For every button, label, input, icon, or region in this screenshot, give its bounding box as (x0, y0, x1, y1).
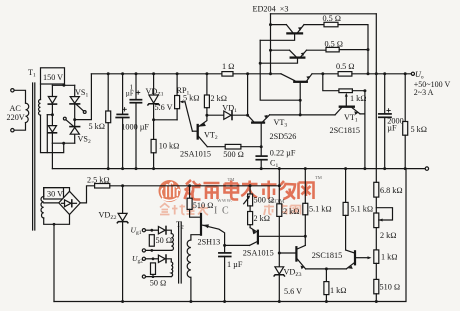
wire sense feed vertical (375, 14, 377, 169)
node 2k on rail (205, 72, 208, 75)
node mid rail bottom return (404, 167, 407, 170)
watermark small row glyphs (160, 204, 208, 216)
svg-text:30 V: 30 V (47, 190, 63, 199)
node VT3 base (260, 145, 263, 148)
node diff base left (278, 252, 281, 255)
capacitor 1000uF (116, 74, 129, 169)
node gate rail 510 (188, 184, 191, 187)
terminal Ug1 top (142, 229, 145, 232)
wire bridge positive to top rail (75, 74, 92, 120)
svg-text:5 kΩ: 5 kΩ (183, 93, 200, 102)
node sense vertical on rail (375, 72, 378, 75)
node bridge minus (53, 223, 56, 226)
resistor 5k left (106, 74, 111, 169)
svg-text:C1: C1 (270, 159, 278, 170)
svg-text:1000 µF: 1000 µF (121, 122, 149, 131)
wire top link (271, 13, 377, 15)
node 5k left on rail (107, 72, 110, 75)
svg-text:0.5 Ω: 0.5 Ω (323, 14, 342, 23)
wire bottom rail (54, 169, 406, 302)
resistor 5.1k first (303, 169, 308, 246)
wire Q3 base to drive node (299, 82, 301, 115)
svg-text:1 kΩ: 1 kΩ (381, 252, 398, 261)
150V label box (41, 68, 65, 84)
svg-text:1 µF: 1 µF (227, 260, 243, 269)
svg-text:2.5 kΩ: 2.5 kΩ (87, 175, 110, 184)
thyristor VS1 (70, 97, 86, 114)
capacitor C1 0.22uF (256, 156, 267, 169)
svg-text:VD1: VD1 (222, 103, 237, 114)
potentiometer 2k divider (374, 208, 393, 228)
wire bridge right branch (74, 85, 76, 143)
transistor ED204 Q1 (260, 25, 304, 41)
divider chain resistor 6.8k (374, 182, 379, 197)
thyristor VS2 (63, 117, 79, 134)
terminal Ug2 top (142, 257, 145, 260)
transistor 2SC1815 right (346, 250, 372, 269)
node mid rail 5k left (107, 167, 110, 170)
resistor 510 ohm divider (374, 279, 379, 301)
svg-text:0.22 µF: 0.22 µF (270, 149, 296, 158)
wire (14, 90, 25, 103)
transistor VT2 (192, 115, 207, 147)
svg-text:VT2: VT2 (204, 130, 218, 141)
resistor 2k zener chain (277, 204, 282, 217)
svg-text:5.1 kΩ: 5.1 kΩ (309, 204, 332, 213)
wire gate supply rail (110, 185, 279, 187)
resistor 0.5 ohm Q2 (326, 47, 339, 52)
resistor 5.1k second (343, 169, 348, 250)
watermark small row glyphs right (264, 204, 301, 215)
output terminal Uo (411, 72, 414, 75)
node bottom rail VDZ2 (121, 300, 124, 303)
resistor 50 ohm lower (151, 263, 156, 275)
node 1000uF on rail (121, 72, 124, 75)
AC input terminal top (11, 89, 14, 92)
svg-text:µF: µF (126, 89, 134, 97)
wire top rail left segment (91, 73, 222, 75)
rheostat 500 ohm (244, 186, 253, 212)
svg-text:µF: µF (387, 123, 397, 132)
svg-text:10 kΩ: 10 kΩ (159, 141, 180, 150)
node gate rail 500 (249, 184, 252, 187)
capacitor 2000uF (379, 74, 391, 169)
svg-text:1 Ω: 1 Ω (222, 62, 234, 71)
wire bridge minus to bottom rail (53, 224, 55, 301)
terminal Ug2 bottom (142, 275, 145, 278)
svg-text:VDZ3: VDZ3 (284, 268, 302, 279)
transistor 2SC1815 left (296, 245, 305, 269)
wire 500 to VT3 base (241, 146, 261, 148)
svg-text:TM: TM (315, 175, 322, 180)
svg-text:5 kΩ: 5 kΩ (411, 125, 428, 134)
svg-text:5.6 V: 5.6 V (155, 103, 173, 112)
potentiometer RP1 (175, 74, 193, 131)
zener diode VDZ1 (148, 74, 159, 140)
svg-text:5.1 kΩ: 5.1 kΩ (351, 204, 374, 213)
wire bridge bottom (52, 142, 74, 144)
node ED204 base drive (299, 113, 302, 116)
diode Ug1 (158, 226, 166, 234)
node bridge bottom junction (62, 142, 65, 145)
wire (14, 123, 25, 131)
wire Ug2 top (146, 258, 159, 260)
svg-text:50 Ω: 50 Ω (156, 236, 173, 245)
resistor 2k upper (204, 74, 209, 115)
node mid rail VT1 emitter (363, 167, 366, 170)
transformer T1 30V winding (41, 197, 44, 218)
node Ug2 bottom (152, 275, 155, 278)
resistor 500 ohm (225, 144, 241, 149)
transistor ED204 Q3 (281, 74, 312, 82)
svg-text:2SH13: 2SH13 (198, 237, 221, 246)
wire UJT emitter to 2SA collector (225, 244, 250, 246)
capacitor 1uF timing (219, 245, 231, 301)
svg-text:2 kΩ: 2 kΩ (380, 231, 397, 240)
node 5k right on rail (404, 72, 407, 75)
svg-text:2SA1015: 2SA1015 (180, 149, 211, 158)
node mid rail 5.1k first (304, 167, 307, 170)
T2 primary winding (187, 235, 201, 302)
zener chain vertical (278, 169, 280, 302)
wire divider chain (375, 169, 377, 280)
wire rail to VT3 collector (247, 74, 249, 115)
svg-text:0.5 Ω: 0.5 Ω (325, 40, 344, 49)
wire Q2 0.5ohm to emitter bus (339, 49, 368, 51)
node mid rail 5.1k second (344, 167, 347, 170)
zener diode VDZ2 (117, 186, 128, 302)
svg-text:VS2: VS2 (78, 135, 91, 146)
svg-text:2 kΩ: 2 kΩ (211, 94, 228, 103)
svg-text:2 kΩ: 2 kΩ (254, 214, 271, 223)
resistor 0.5 ohm Q1 (324, 22, 338, 27)
zener diode VDZ3 (274, 267, 284, 276)
wire secondary bottom path to bridge bottom (41, 115, 64, 153)
bridge internal diode (62, 200, 77, 207)
svg-text:1 kΩ: 1 kΩ (350, 94, 367, 103)
transistor 2SH13 (201, 214, 225, 246)
node 1uF on rail (135, 72, 138, 75)
node Q2 collector takeoff (269, 49, 272, 52)
wire VDZ1 to RP1 bottom (154, 119, 178, 121)
node Ug1 bottom (150, 249, 153, 252)
node bottom rail T2 (189, 300, 192, 303)
capacitor 1uF (130, 74, 141, 169)
transistor VT1 (335, 107, 360, 115)
wire Q1 0.5ohm to emitter bus (338, 25, 368, 74)
watermark big row glyphs (185, 180, 314, 200)
diode VD secondary top-left (48, 97, 56, 105)
svg-text:50 Ω: 50 Ω (150, 279, 167, 288)
wire tap drop (46, 115, 48, 153)
node bottom rail VDZ3 (278, 300, 281, 303)
svg-text:VT3: VT3 (274, 118, 288, 129)
svg-text:TM: TM (228, 177, 235, 182)
transistor 2SA1015 lower (250, 228, 306, 246)
potentiometer 1k divider (374, 250, 379, 264)
resistor 10k (151, 139, 156, 168)
node common emitter (325, 267, 328, 270)
terminal Ug1 bottom (142, 249, 145, 252)
transformer T1 core (32, 83, 34, 230)
svg-text:1 kΩ: 1 kΩ (330, 286, 347, 295)
node collector bus on rail (269, 72, 272, 75)
svg-text:510 Ω: 510 Ω (193, 201, 214, 210)
wire bridge left branch (51, 85, 53, 143)
svg-text:WWW.: WWW. (217, 199, 232, 204)
transformer T1 150V secondary winding (39, 100, 41, 116)
node gate rail VDZ2 (121, 184, 124, 187)
resistor 1k emitter (324, 269, 329, 302)
bridge rectifier diamond (59, 191, 81, 214)
svg-text:AC: AC (10, 104, 22, 113)
svg-text:2SC1815: 2SC1815 (330, 126, 360, 135)
node bottom rail 1uF (223, 300, 226, 303)
svg-text:5.6 V: 5.6 V (284, 287, 302, 296)
svg-text:5 kΩ: 5 kΩ (89, 122, 106, 131)
node VDZ1 bottom (152, 118, 155, 121)
wire 30V center tap (44, 202, 59, 204)
wire bridge negative down to mid rail (51, 143, 53, 168)
wire Ug1 top (146, 229, 159, 231)
node 2SA collector junction (304, 235, 307, 238)
node bottom rail 1k (325, 300, 328, 303)
T2 gate winding 2 (146, 259, 173, 277)
transistor VT3 (248, 115, 270, 147)
svg-text:510 Ω: 510 Ω (380, 282, 401, 291)
node VDZ1 on rail (152, 72, 155, 75)
node Ug2 top (152, 257, 155, 260)
node Q3 base (299, 99, 302, 102)
wire box to bridge top (63, 84, 65, 85)
T2 gate winding 1 (146, 230, 174, 250)
resistor 0.5 ohm Q3 (338, 72, 352, 77)
svg-text:2SC1815: 2SC1815 (312, 251, 342, 260)
svg-text:Uo: Uo (415, 70, 424, 81)
wire VT3 base to C1 (260, 147, 262, 156)
node RP1 on rail (176, 72, 179, 75)
node secondary tap (51, 113, 54, 116)
svg-text:VS1: VS1 (75, 88, 88, 99)
svg-text:C: C (222, 206, 229, 217)
node bridge right mid (73, 118, 76, 121)
node Ug1 top (150, 229, 153, 232)
wire ED204 collector bus (270, 14, 272, 74)
AC input terminal bottom (11, 129, 14, 132)
svg-text:VDZ1: VDZ1 (146, 87, 164, 98)
diode Ug2 (158, 255, 166, 263)
resistor 2k chain (248, 212, 253, 228)
wire VT1 emitter to mid rail (360, 114, 365, 169)
wire secondary top to 150V box (40, 84, 42, 100)
wire output rail Q3 to 0.5ohm (312, 73, 338, 75)
wire top rail to VT3 collector area (233, 73, 281, 75)
node Q2 base on bus (259, 62, 262, 65)
svg-text:0.5 Ω: 0.5 Ω (336, 62, 355, 71)
svg-text:2 kΩ: 2 kΩ (283, 207, 300, 216)
svg-text:500 Ω: 500 Ω (254, 195, 275, 204)
svg-text:Ug2: Ug2 (132, 254, 143, 265)
wire secondary tap to bridge left mid (47, 114, 52, 116)
node mid rail 2000uF (383, 167, 386, 170)
wire 30V winding bottom (44, 215, 70, 225)
svg-text:2SD526: 2SD526 (270, 132, 297, 141)
svg-text:Ug1: Ug1 (131, 225, 142, 236)
node VT3 collector (246, 114, 249, 117)
transformer T2 core (179, 222, 182, 283)
diode VD secondary bottom-left (48, 126, 56, 133)
svg-text:T1: T1 (28, 68, 36, 79)
svg-text:VDZ2: VDZ2 (99, 211, 117, 222)
transformer T1 primary winding (26, 103, 29, 122)
output minus terminal (425, 167, 428, 170)
svg-text:I: I (214, 206, 217, 217)
node 1k pot left on rail (321, 72, 324, 75)
node bridge top (62, 84, 65, 87)
potentiometer 1k VT1 (323, 74, 365, 114)
wire bridge top (52, 84, 74, 86)
node mid rail 10k (152, 167, 155, 170)
wire diff base left (279, 252, 295, 254)
wire Q2 emitter (307, 49, 327, 51)
node VD1 left (205, 114, 208, 117)
node VT3 feed on rail (246, 72, 249, 75)
node emitter bus on output rail (367, 72, 370, 75)
wire ED204 base bus (260, 40, 300, 100)
node emitter bus Q2 (367, 48, 370, 51)
resistor 5k right (403, 74, 408, 169)
node 2000uF on rail (383, 72, 386, 75)
svg-text:2~3 A: 2~3 A (414, 88, 434, 97)
transistor ED204 Q2 (260, 50, 306, 63)
node mid rail C1 (260, 167, 263, 170)
resistor 2.5k (95, 184, 110, 189)
node Q1 collector takeoff (269, 23, 272, 26)
node 1k pot right (363, 89, 366, 92)
svg-text:T2: T2 (176, 220, 184, 231)
wire VT2 emitter (207, 146, 225, 148)
node gate rail end (278, 184, 281, 187)
wire mid rail (52, 168, 425, 170)
wire 30V winding top (44, 188, 70, 197)
wire VT3 emitter line (270, 114, 335, 116)
node mid rail 1000uF (121, 167, 124, 170)
resistor 1 ohm (222, 72, 233, 77)
wire output rail right (352, 73, 411, 75)
svg-text:500 Ω: 500 Ω (223, 150, 244, 159)
30V label box (44, 188, 64, 199)
wire common emitters (306, 268, 347, 270)
node UJT emitter (223, 244, 226, 247)
svg-text:ED204 ×3: ED204 ×3 (253, 5, 289, 14)
watermark logo circle (159, 180, 181, 202)
resistor 50 ohm upper (149, 235, 154, 247)
diode VD1 (224, 111, 232, 120)
wire Q1 emitter (304, 24, 324, 26)
resistor 510 ohm UJT (187, 186, 201, 217)
svg-text:220V: 220V (7, 113, 25, 122)
svg-text:6.8 kΩ: 6.8 kΩ (380, 186, 403, 195)
svg-text:2SA1015: 2SA1015 (243, 248, 274, 257)
node mid rail zener chain (278, 167, 281, 170)
svg-text:150 V: 150 V (43, 73, 63, 82)
wire VD1 (207, 114, 248, 116)
node mid rail 1uF (135, 167, 138, 170)
wire bridge plus to 2.5k (80, 186, 94, 203)
node bottom rail 510 (375, 300, 378, 303)
